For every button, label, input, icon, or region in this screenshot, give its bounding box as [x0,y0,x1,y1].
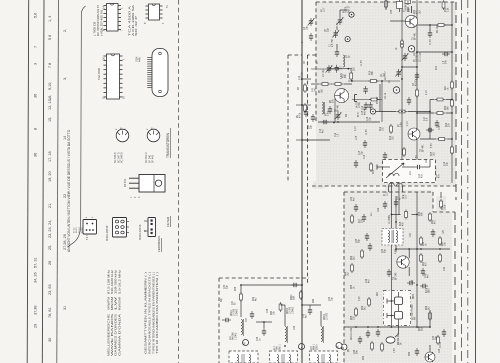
svg-text:968 37: 968 37 [337,22,339,30]
svg-text:C15: C15 [359,150,361,155]
svg-text:7: 7 [34,46,38,48]
wire [311,68,334,70]
AM coil L16 [241,319,243,336]
wire [379,84,381,112]
AM IF shaded block [344,190,452,363]
svg-text:ME/DE AW: ME/DE AW [397,333,400,345]
svg-text:ANSICHT VON UNTEN / BOTTOM VIE: ANSICHT VON UNTEN / BOTTOM VIEW / VUE DE… [67,129,71,252]
junction [401,43,403,45]
IC DIP14 L7805 [102,4,124,32]
svg-text:R40: R40 [271,310,273,315]
capacitor [311,114,315,122]
svg-text:11,5V: 11,5V [361,60,363,66]
svg-text:C13: C13 [419,173,421,178]
junction [301,78,303,80]
svg-text:58 13: 58 13 [76,227,78,233]
svg-text:C14: C14 [367,116,369,121]
svg-text:C37: C37 [246,317,248,322]
svg-text:C7 12p: C7 12p [323,69,325,77]
svg-text:BF 441: BF 441 [423,144,425,152]
svg-text:57 12: 57 12 [74,227,76,233]
resistor [368,297,371,307]
svg-text:C27: C27 [410,232,412,237]
wire [429,100,431,140]
svg-text:R31: R31 [445,85,447,90]
AM coil L17 [285,326,287,343]
AM tuner block dashed border [219,278,309,363]
svg-text:0,67V: 0,67V [341,73,343,79]
svg-text:R29: R29 [363,355,365,360]
trimmer capacitor [395,69,402,77]
wire [320,311,322,326]
svg-text:R402: R402 [291,294,293,300]
resistor [442,0,445,10]
svg-text:9,10,: 9,10, [48,82,52,90]
svg-text:C33: C33 [303,313,305,318]
junction [429,326,431,328]
inductor [321,327,323,342]
wire stub crossing bus [296,139,309,141]
IF transformer FI1 [389,183,403,192]
wire [381,81,383,122]
coil can 1 [229,351,258,363]
svg-text:C23: C23 [425,273,427,278]
svg-text:AM 110 AW: AM 110 AW [350,327,353,340]
svg-text:C39: C39 [329,296,331,301]
svg-text:45 8: 45 8 [358,112,360,117]
svg-text:C20: C20 [436,173,438,178]
svg-text:R2 100: R2 100 [437,25,439,33]
svg-text:C16: C16 [364,154,366,159]
svg-text:R25: R25 [351,315,353,320]
wire row y=81 [348,80,400,82]
connector 4-pin block [144,218,156,237]
svg-text:10,7: 10,7 [387,191,389,196]
capacitor [335,65,339,73]
wire [451,2,453,183]
trimmer capacitor [326,65,333,73]
svg-text:R18: R18 [400,221,402,226]
wire [390,20,405,22]
trimmer capacitor [332,30,339,38]
resistor [420,236,423,246]
resistor [385,0,388,9]
inductor [277,355,279,363]
svg-text:29: 29 [34,324,38,328]
svg-text:BF 441: BF 441 [415,32,417,40]
resistor [435,112,445,115]
svg-text:1,5V: 1,5V [394,348,396,353]
capacitor [363,86,367,94]
tuning coil with arrow [384,163,415,178]
svg-text:R7 1k2: R7 1k2 [377,96,379,104]
svg-text:5 6 7: 5 6 7 [87,234,89,240]
capacitor [415,165,423,169]
svg-text:R23: R23 [423,261,425,266]
svg-text:2,: 2, [63,29,67,32]
trimmer capacitor [337,17,344,25]
resistor [279,302,282,312]
coil can 3 [310,351,338,363]
svg-text:(-A5N, 257-405 76): (-A5N, 257-405 76) [99,10,103,36]
test point [408,46,414,52]
svg-text:C29: C29 [444,266,446,271]
svg-text:C25: C25 [356,238,358,243]
svg-text:R17: R17 [359,218,361,223]
svg-text:TIPI DI RICAMBIO FRA PARENTESI: TIPI DI RICAMBIO FRA PARENTESI ( ) [155,272,159,354]
transistor [425,352,435,362]
svg-text:R35: R35 [419,326,421,331]
svg-text:BF 441: BF 441 [338,104,340,112]
resistor [439,236,442,246]
trimmer capacitor [402,53,409,61]
svg-text:R15: R15 [373,169,375,174]
svg-text:1740): 1740) [359,102,361,108]
potentiometer P1 TUNING [397,0,403,12]
resistor [369,98,379,101]
svg-text:SO 42 P: SO 42 P [134,16,138,36]
junction [355,326,357,328]
svg-text:C22: C22 [378,207,380,212]
junction [391,326,393,328]
wire [309,305,311,307]
resistor [435,98,445,101]
svg-text:C12: C12 [335,132,337,137]
trimmer capacitor [335,112,342,120]
svg-text:R25: R25 [351,284,353,289]
svg-text:R32: R32 [445,105,447,110]
svg-text:12V: 12V [443,229,445,234]
svg-text:C35: C35 [391,9,393,14]
svg-text:10,7MHz: 10,7MHz [389,214,391,224]
svg-text:OSZIL: OSZIL [417,55,419,62]
test point [345,37,350,42]
FM IF shaded block [316,2,456,186]
svg-text:W402: W402 [287,307,289,314]
wire [281,304,286,306]
sheet edge line right [475,0,477,363]
svg-text:25,: 25, [48,245,52,250]
wire [398,174,400,215]
SIP module SDA [147,49,168,97]
resistor [420,253,423,263]
coil can 2 [270,351,298,363]
resistor [351,263,354,273]
svg-text:30: 30 [48,338,52,342]
junction [351,80,353,82]
capacitor [364,102,368,110]
wire row y=69 [330,68,352,70]
wire stub crossing bus [296,104,311,106]
svg-text:34, 26: 34, 26 [34,272,38,283]
junction [391,300,393,302]
resistor [405,210,408,220]
svg-text:C9 1n: C9 1n [385,92,387,99]
svg-text:R16: R16 [370,70,372,75]
FM IF block dashed border [308,2,457,283]
svg-text:DRO: DRO [413,294,415,299]
inductor [343,55,345,67]
svg-text:C16: C16 [362,105,364,110]
capacitor [304,109,308,117]
resistor [397,110,407,113]
test point [349,12,354,17]
svg-text:MW 1: MW 1 [314,343,316,350]
small shaded tab lower-left [313,181,325,189]
wire [416,0,418,183]
capacitor [432,166,436,174]
capacitor [419,172,423,180]
ceramic filter 1 [387,292,403,311]
junction [416,326,418,328]
svg-text:10-380: 10-380 [234,308,236,316]
svg-text:31: 31 [63,306,67,310]
junction [240,284,242,286]
svg-text:8: 8 [34,128,38,130]
svg-text:17, 18: 17, 18 [48,151,52,162]
junction [301,284,303,286]
capacitor [407,97,411,105]
wire [395,196,397,228]
svg-text:R19: R19 [423,241,425,246]
main bus wire [301,0,303,363]
svg-text:R26: R26 [362,305,364,310]
node M [242,340,248,346]
antenna input [377,165,384,170]
svg-text:W403: W403 [324,313,326,320]
wire [429,25,431,31]
wave band table [107,269,122,356]
svg-text:24,: 24, [48,220,52,225]
wire [429,310,431,327]
ceramic filter 2 [387,312,403,327]
resistor [350,71,353,81]
resistor [368,80,378,83]
svg-text:60 15: 60 15 [82,227,84,233]
svg-text:R33: R33 [414,9,416,14]
table line 2 [42,0,44,363]
resistor [401,39,404,49]
svg-text:59 14: 59 14 [79,227,81,233]
wire [284,305,286,326]
node K [336,343,342,349]
horizontal wire [396,248,450,250]
IC DIP8 part labels [128,5,139,36]
svg-text:R21: R21 [442,241,444,246]
capacitor [435,120,439,128]
wire [395,245,397,252]
svg-text:96B 37: 96B 37 [348,5,350,13]
svg-text:15,: 15, [48,117,52,122]
svg-text:R36: R36 [409,351,411,356]
capacitor [426,128,434,132]
svg-text:R39: R39 [253,296,255,301]
inductor [249,355,251,363]
capacitor [354,204,358,212]
wire [408,249,410,258]
table line 1 [27,0,29,363]
svg-text:2,5-T5P: 2,5-T5P [332,38,334,47]
resistor [240,292,243,302]
wire AM out [344,326,430,328]
svg-text:TRANSISTOREN: TRANSISTOREN [166,132,170,158]
wire [385,0,387,10]
svg-text:R30: R30 [442,205,444,210]
resonator Q1 [355,95,358,102]
interchangeable-types note [144,272,160,354]
svg-text:BF 441: BF 441 [152,154,155,163]
svg-text:U 310: U 310 [440,341,442,348]
svg-text:11,5V: 11,5V [366,129,368,135]
TO-220 package [129,175,165,199]
svg-text:R22: R22 [351,255,353,260]
resistor [436,24,446,27]
svg-text:C30: C30 [433,335,435,340]
TO-92 pinout left [116,127,129,142]
svg-text:R13: R13 [436,65,438,70]
capacitor [394,199,398,207]
svg-text:DR3: DR3 [429,288,431,293]
svg-text:BC 548 B: BC 548 B [121,152,124,163]
capacitor [223,318,231,322]
svg-text:R24: R24 [345,271,347,276]
wire [402,66,417,68]
capacitor [291,283,299,287]
svg-text:FI: FI [384,194,386,196]
svg-text:5,5V: 5,5V [416,155,418,160]
junction [333,122,335,124]
svg-text:90161-168 96: 90161-168 96 [106,225,109,241]
IF transformer FI2 [382,229,403,246]
svg-text:0,6u: 0,6u [401,122,403,127]
svg-text:AM: AM [276,346,279,350]
capacitor [428,30,432,38]
svg-text:TDA 4500: TDA 4500 [97,68,101,80]
svg-text:10,7: 10,7 [324,7,326,12]
junction [416,51,418,53]
svg-text:1/3463: 1/3463 [236,308,238,316]
wire [416,192,418,290]
capacitor [387,269,391,277]
svg-text:C13: C13 [320,128,322,133]
filter output inductor [386,326,399,343]
table column 1 numbers [34,13,38,328]
capacitor [383,201,387,209]
svg-text:FILTER: FILTER [166,216,170,227]
transistor [405,15,417,27]
resistor [361,249,364,259]
wire [302,78,311,80]
svg-text:21,: 21, [48,203,52,208]
wire [376,111,397,113]
capacitor [376,329,380,337]
svg-text:23, 24,: 23, 24, [48,226,52,238]
svg-text:1/3463: 1/3463 [292,306,294,314]
svg-text:R15: R15 [431,151,433,156]
sheet fold dash-dot line right 2 [467,0,469,363]
resistor [451,145,454,155]
svg-text:C30: C30 [224,284,226,289]
wire T1 collector to rail [418,24,452,26]
inductor [237,355,239,363]
junction [347,68,349,70]
AM bus wire [241,284,302,286]
svg-text:57, 31: 57, 31 [34,257,38,268]
wire [240,285,242,317]
svg-text:19, 20: 19, 20 [48,171,52,182]
svg-text:C31: C31 [232,300,234,305]
resistor [451,80,454,90]
transistor [397,256,409,268]
wire [417,112,435,114]
wire [408,267,410,276]
resistor [439,253,442,263]
svg-text:3: 3 [34,63,38,65]
svg-text:R20: R20 [432,219,434,224]
svg-text:R14: R14 [446,122,448,127]
resistor [381,342,384,352]
capacitor [442,52,450,56]
junction [301,78,303,80]
svg-text:(B): (B) [348,349,350,352]
svg-text:R12: R12 [380,126,382,131]
junction [395,221,397,223]
IC DIP14 part labels [93,5,104,36]
resistor [351,214,354,224]
FM tuner inner dashed border [288,55,302,183]
svg-text:C21: C21 [426,158,428,163]
table column 2 numbers [48,16,52,342]
main bus wire overdraw [301,0,303,363]
resistor [416,88,419,98]
wire [339,10,341,17]
transistor [335,89,349,103]
capacitor [366,330,370,338]
capacitor [308,307,312,315]
svg-text:1 (740): 1 (740) [235,332,237,340]
junction [451,51,453,53]
svg-text:AM 5k6: AM 5k6 [232,331,235,340]
svg-text:3,: 3, [63,77,67,80]
svg-text:C15: C15 [356,135,358,140]
resistor [320,83,330,86]
resistor [333,83,343,86]
svg-text:0,9V: 0,9V [359,296,361,301]
svg-text:82R: 82R [294,295,296,300]
inductor [241,320,243,335]
wire [417,51,452,53]
svg-text:R34: R34 [419,211,421,216]
inductor L9 [322,102,324,114]
svg-text:1, 4: 1, 4 [48,16,52,22]
wire [302,139,330,141]
inductor [317,355,319,363]
svg-text:R28: R28 [426,305,428,310]
transistor [408,128,420,140]
svg-text:C32: C32 [294,325,296,330]
wire [429,345,431,352]
svg-text:GAMMA D'ONDA: GAMMA D'ONDA [117,314,121,356]
svg-text:C38: C38 [267,308,269,313]
capacitor [415,72,419,80]
inductor [322,102,324,114]
svg-text:C28: C28 [354,349,356,354]
capacitor [358,336,362,344]
wire [391,178,393,327]
capacitor [368,243,372,251]
wire [311,83,320,85]
svg-text:44R: 44R [138,57,142,62]
